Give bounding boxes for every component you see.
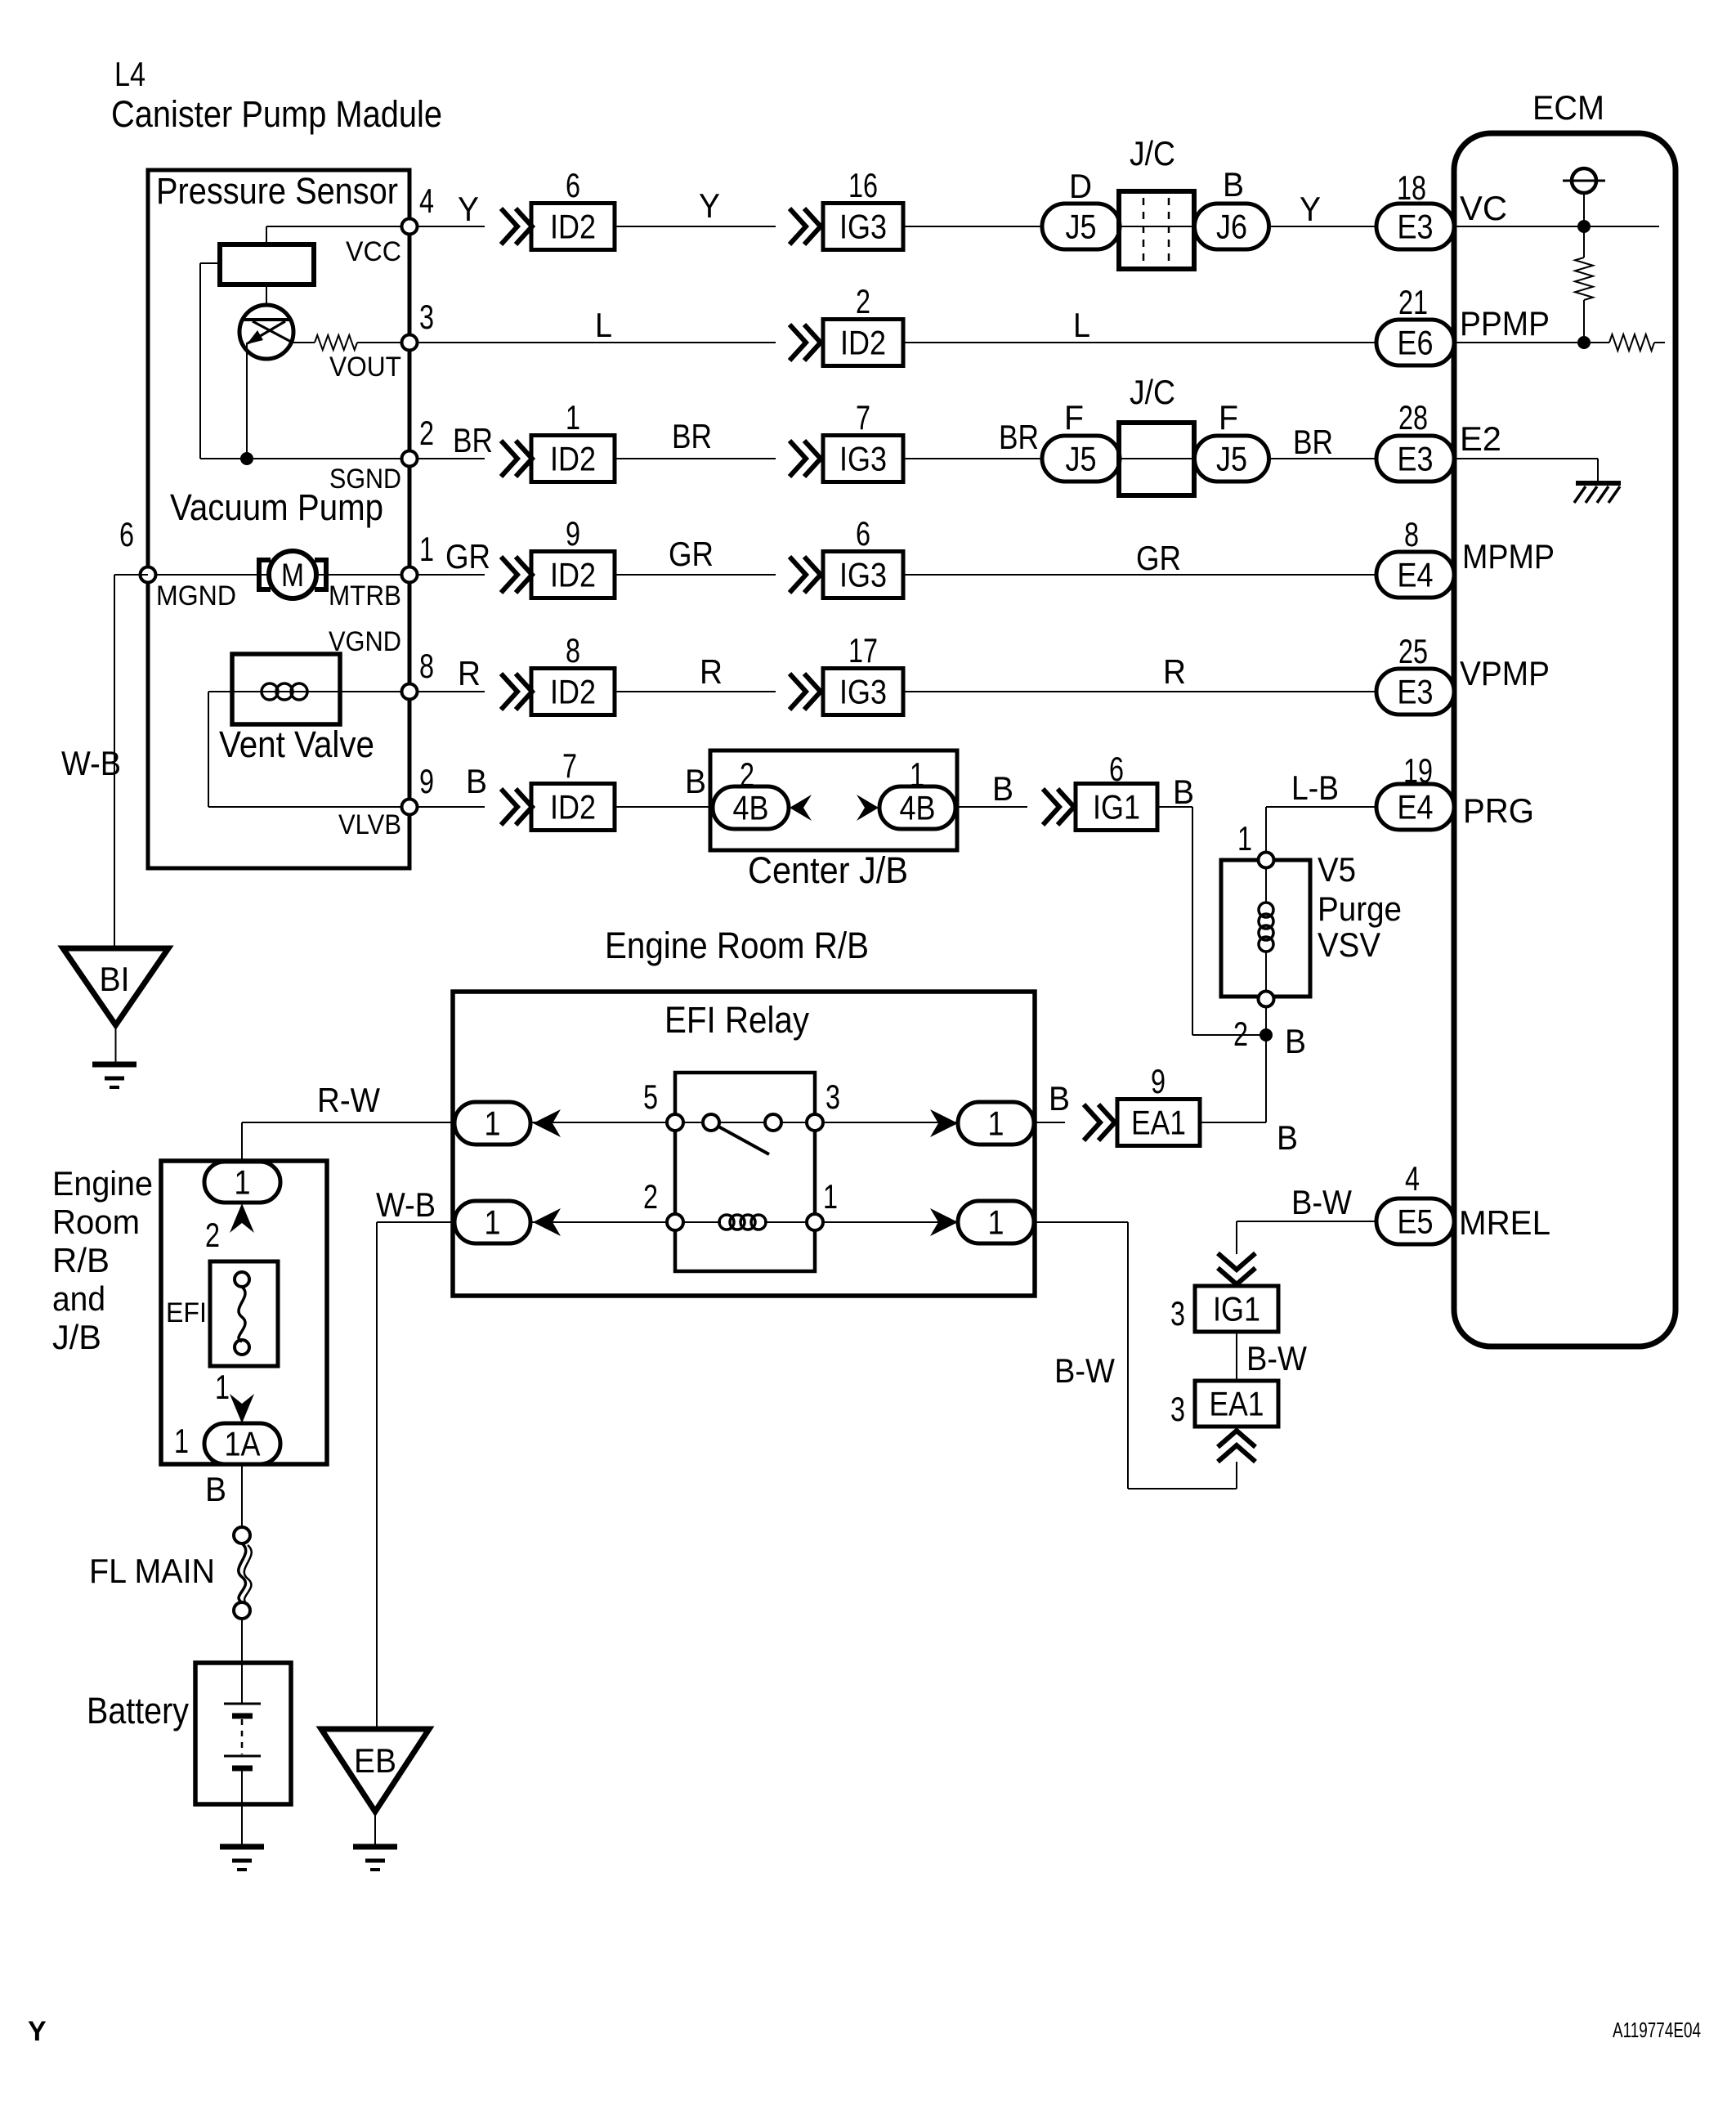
- svg-text:B-W: B-W: [1246, 1339, 1307, 1378]
- svg-text:3: 3: [825, 1077, 840, 1116]
- svg-text:F: F: [1064, 398, 1084, 437]
- svg-text:VOUT: VOUT: [329, 352, 401, 383]
- svg-text:Y: Y: [699, 186, 720, 225]
- svg-text:M: M: [281, 558, 304, 594]
- svg-text:E4: E4: [1398, 556, 1434, 594]
- svg-text:ID2: ID2: [840, 324, 886, 362]
- svg-text:W-B: W-B: [61, 744, 121, 782]
- svg-text:ID2: ID2: [550, 556, 596, 594]
- svg-text:BR: BR: [672, 417, 712, 455]
- svg-text:1: 1: [988, 1104, 1004, 1143]
- svg-text:VPMP: VPMP: [1460, 654, 1550, 692]
- svg-text:MGND: MGND: [156, 580, 236, 611]
- svg-text:2: 2: [856, 282, 870, 320]
- svg-text:Canister Pump Madule: Canister Pump Madule: [111, 93, 442, 135]
- svg-text:Y: Y: [1300, 190, 1321, 228]
- svg-text:PRG: PRG: [1463, 791, 1534, 830]
- svg-text:BR: BR: [1293, 423, 1333, 461]
- svg-text:1: 1: [235, 1163, 251, 1202]
- svg-text:3: 3: [1170, 1294, 1185, 1333]
- svg-text:25: 25: [1398, 632, 1428, 670]
- svg-text:E2: E2: [1460, 419, 1501, 458]
- svg-text:J6: J6: [1216, 208, 1247, 246]
- svg-text:EFI: EFI: [166, 1297, 207, 1328]
- svg-text:VLVB: VLVB: [338, 809, 401, 840]
- svg-text:16: 16: [848, 166, 878, 204]
- svg-text:2: 2: [643, 1177, 658, 1216]
- svg-text:ECM: ECM: [1532, 88, 1604, 127]
- svg-text:L4: L4: [114, 55, 145, 93]
- svg-text:9: 9: [1151, 1062, 1166, 1100]
- svg-text:EB: EB: [354, 1741, 396, 1780]
- svg-text:MTRB: MTRB: [329, 580, 401, 611]
- svg-text:6: 6: [856, 514, 870, 553]
- svg-text:1: 1: [566, 398, 580, 437]
- svg-text:IG1: IG1: [1213, 1290, 1260, 1328]
- svg-text:IG3: IG3: [839, 673, 887, 711]
- svg-text:B: B: [205, 1470, 226, 1508]
- svg-text:IG1: IG1: [1093, 788, 1140, 827]
- svg-text:3: 3: [1170, 1390, 1185, 1428]
- svg-text:2: 2: [419, 414, 434, 452]
- svg-text:R/B: R/B: [52, 1241, 110, 1279]
- svg-text:8: 8: [419, 647, 434, 685]
- svg-text:GR: GR: [445, 537, 490, 576]
- svg-text:J5: J5: [1066, 208, 1097, 246]
- svg-text:FL MAIN: FL MAIN: [89, 1552, 215, 1590]
- svg-text:1: 1: [419, 530, 434, 568]
- svg-text:ID2: ID2: [550, 440, 596, 478]
- svg-text:2: 2: [1233, 1015, 1248, 1053]
- svg-text:7: 7: [562, 746, 577, 785]
- svg-text:1: 1: [485, 1104, 501, 1143]
- svg-text:17: 17: [848, 631, 878, 670]
- svg-text:D: D: [1069, 167, 1092, 205]
- svg-text:L: L: [1073, 306, 1090, 344]
- svg-text:L: L: [595, 306, 612, 344]
- svg-text:J/C: J/C: [1130, 134, 1175, 172]
- svg-text:B: B: [992, 769, 1013, 808]
- svg-text:E3: E3: [1398, 208, 1434, 246]
- svg-text:Battery: Battery: [87, 1690, 189, 1731]
- svg-text:Purge: Purge: [1318, 889, 1402, 928]
- svg-text:BI: BI: [100, 960, 130, 998]
- svg-text:J5: J5: [1216, 440, 1247, 478]
- svg-text:Pressure Sensor: Pressure Sensor: [156, 170, 398, 212]
- svg-text:IG3: IG3: [839, 556, 887, 594]
- svg-text:GR: GR: [1136, 539, 1181, 577]
- svg-text:8: 8: [1404, 515, 1419, 553]
- svg-text:6: 6: [119, 515, 134, 553]
- svg-text:EFI Relay: EFI Relay: [664, 999, 809, 1041]
- svg-text:B: B: [1173, 773, 1194, 811]
- svg-text:E3: E3: [1398, 673, 1434, 711]
- svg-text:1: 1: [174, 1422, 189, 1460]
- svg-text:4B: 4B: [733, 789, 769, 827]
- svg-text:2: 2: [205, 1216, 220, 1254]
- svg-text:B-W: B-W: [1054, 1351, 1115, 1390]
- svg-text:R: R: [1163, 652, 1186, 691]
- svg-text:MPMP: MPMP: [1462, 537, 1555, 576]
- svg-text:1: 1: [215, 1368, 230, 1406]
- svg-text:2: 2: [740, 755, 754, 794]
- svg-text:B: B: [1223, 165, 1244, 204]
- svg-text:EA1: EA1: [1131, 1104, 1186, 1142]
- svg-text:J/C: J/C: [1130, 373, 1175, 411]
- svg-text:1: 1: [823, 1177, 838, 1216]
- svg-text:B: B: [466, 762, 487, 800]
- svg-text:8: 8: [566, 631, 580, 670]
- svg-text:BR: BR: [453, 421, 493, 459]
- svg-text:Room: Room: [52, 1203, 140, 1241]
- svg-text:4: 4: [419, 181, 434, 220]
- svg-text:B: B: [685, 762, 706, 800]
- svg-text:VC: VC: [1460, 189, 1507, 227]
- svg-text:BR: BR: [999, 418, 1039, 456]
- svg-text:GR: GR: [669, 535, 714, 573]
- svg-text:9: 9: [566, 514, 580, 553]
- svg-text:ID2: ID2: [550, 208, 596, 246]
- svg-text:9: 9: [419, 762, 434, 800]
- svg-text:Y: Y: [458, 190, 479, 228]
- svg-text:Center J/B: Center J/B: [748, 849, 908, 891]
- svg-text:V5: V5: [1318, 850, 1356, 889]
- svg-text:1A: 1A: [225, 1425, 261, 1463]
- svg-text:E3: E3: [1398, 440, 1434, 478]
- svg-text:EA1: EA1: [1210, 1385, 1264, 1423]
- svg-text:5: 5: [643, 1077, 658, 1116]
- svg-text:Vacuum Pump: Vacuum Pump: [170, 486, 383, 528]
- svg-text:6: 6: [566, 166, 580, 204]
- svg-text:E6: E6: [1398, 324, 1434, 362]
- svg-text:A119774E04: A119774E04: [1613, 2018, 1701, 2042]
- svg-text:1: 1: [910, 755, 924, 794]
- svg-text:28: 28: [1398, 398, 1428, 437]
- svg-text:1: 1: [988, 1203, 1004, 1242]
- svg-text:Vent Valve: Vent Valve: [219, 723, 374, 765]
- svg-text:IG3: IG3: [839, 440, 887, 478]
- svg-text:18: 18: [1397, 168, 1426, 207]
- svg-text:E4: E4: [1398, 788, 1434, 827]
- svg-text:21: 21: [1398, 283, 1428, 321]
- svg-text:6: 6: [1109, 750, 1124, 788]
- svg-text:J/B: J/B: [52, 1318, 101, 1356]
- svg-text:Y: Y: [28, 2016, 47, 2047]
- svg-text:4: 4: [1405, 1159, 1420, 1198]
- svg-text:R: R: [700, 652, 723, 691]
- svg-text:R: R: [458, 654, 481, 692]
- svg-text:B: B: [1285, 1022, 1306, 1060]
- svg-text:1: 1: [485, 1203, 501, 1242]
- svg-text:W-B: W-B: [376, 1185, 436, 1224]
- svg-text:ID2: ID2: [550, 788, 596, 827]
- svg-text:R-W: R-W: [317, 1081, 380, 1119]
- svg-text:PPMP: PPMP: [1460, 304, 1550, 343]
- svg-text:Engine Room R/B: Engine Room R/B: [605, 925, 869, 966]
- svg-text:F: F: [1219, 398, 1238, 437]
- svg-text:B-W: B-W: [1291, 1183, 1352, 1221]
- svg-text:7: 7: [856, 398, 870, 437]
- svg-text:L-B: L-B: [1291, 768, 1339, 807]
- svg-text:ID2: ID2: [550, 673, 596, 711]
- svg-text:J5: J5: [1066, 440, 1097, 478]
- svg-text:VSV: VSV: [1318, 925, 1380, 964]
- svg-text:Engine: Engine: [52, 1164, 153, 1203]
- svg-text:MREL: MREL: [1459, 1203, 1550, 1242]
- svg-text:4B: 4B: [900, 789, 936, 827]
- svg-text:B: B: [1277, 1118, 1298, 1157]
- svg-text:3: 3: [419, 298, 434, 336]
- svg-text:IG3: IG3: [839, 208, 887, 246]
- svg-text:19: 19: [1403, 751, 1433, 790]
- svg-text:1: 1: [1237, 819, 1252, 858]
- svg-text:E5: E5: [1398, 1203, 1434, 1241]
- svg-text:B: B: [1049, 1079, 1070, 1118]
- svg-text:VCC: VCC: [346, 236, 401, 267]
- svg-text:and: and: [52, 1279, 105, 1318]
